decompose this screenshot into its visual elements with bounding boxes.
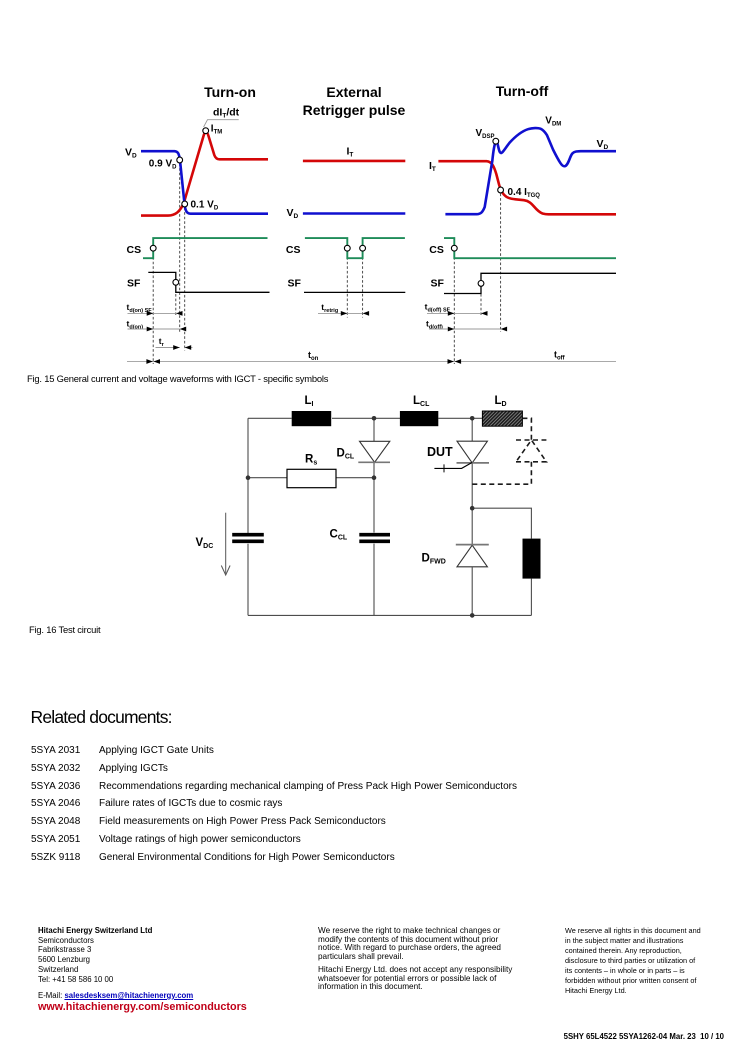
wire left vertical: [247, 418, 249, 615]
CS green trace panel2: [305, 238, 405, 258]
capacitor VDC: [232, 533, 264, 537]
marker CS panel3: [451, 245, 457, 251]
circuit figure: [0, 385, 750, 630]
svg-text:td(off) SF: td(off) SF: [425, 301, 451, 313]
svg-text:VD: VD: [287, 207, 299, 220]
red current trace panel3: [438, 161, 616, 214]
blue trace panel2: [303, 212, 405, 215]
dashed vertical at 0.9VD x=179.7: [179, 164, 181, 333]
node junction bottom rail: [470, 613, 475, 618]
inductor LCL: [400, 411, 438, 426]
wire DCL vertical: [373, 418, 375, 615]
node junction DCL top: [372, 416, 377, 421]
svg-text:SF: SF: [127, 278, 141, 290]
node junction Rs left: [246, 475, 251, 480]
svg-text:Turn-on: Turn-on: [204, 84, 256, 100]
waveform figure: [0, 0, 750, 370]
svg-text:DCL: DCL: [337, 448, 355, 461]
wire load branch: [472, 508, 531, 615]
svg-text:Rs: Rs: [305, 454, 317, 467]
CS green trace panel3: [444, 238, 616, 258]
blue voltage trace panel1: [141, 151, 268, 214]
node junction Rs right / DCL bottom: [372, 475, 377, 480]
dashed vertical at CS edge x=153: [152, 253, 154, 365]
wire top rail: [248, 417, 482, 419]
VDC arrow: [225, 513, 227, 574]
svg-text:IT: IT: [429, 160, 436, 173]
svg-text:Turn-off: Turn-off: [496, 83, 549, 99]
svg-text:CS: CS: [127, 244, 142, 256]
dim row1 panel3: [427, 312, 481, 314]
svg-text:CCL: CCL: [330, 529, 348, 542]
marker CS panel1: [150, 245, 156, 251]
svg-text:VD: VD: [597, 138, 609, 151]
dashed verticals panel3: [453, 253, 455, 365]
dim row2 panel3: [429, 328, 501, 330]
t_on gray baseline: [127, 361, 616, 363]
dIT/dt tangent line: [204, 120, 239, 127]
svg-text:dIT/dt: dIT/dt: [213, 107, 240, 120]
related documents heading: [31, 707, 172, 728]
svg-text:0.1 VD: 0.1 VD: [191, 200, 219, 212]
load resistor (black): [523, 539, 541, 579]
wire DFWD vertical: [471, 508, 473, 615]
wire bottom rail: [248, 614, 531, 616]
red trace panel2: [303, 160, 405, 163]
svg-text:SF: SF: [288, 278, 302, 290]
svg-text:ton: ton: [308, 350, 319, 362]
CS green trace panel1: [143, 238, 268, 258]
inductor LD (hatched): [482, 411, 522, 426]
marker ITM: [203, 128, 209, 134]
inductor LI: [292, 411, 332, 426]
marker 0.1VD: [182, 201, 188, 207]
marker SF panel1: [173, 279, 179, 285]
svg-text:0.9 VD: 0.9 VD: [149, 159, 177, 171]
svg-text:LD: LD: [495, 395, 507, 408]
diode DCL: [360, 441, 390, 462]
SF trace panel2: [304, 291, 405, 293]
fig16 caption: [29, 624, 100, 635]
svg-text:0.4 ITGQ: 0.4 ITGQ: [508, 187, 541, 199]
dashed clamp branch: [472, 418, 546, 484]
dashed verticals panel2: [346, 253, 348, 318]
svg-text:LI: LI: [305, 395, 314, 408]
svg-text:CS: CS: [429, 244, 444, 256]
dashed vertical at 0.1VD x=184.7: [184, 208, 186, 351]
svg-text:toff: toff: [554, 350, 566, 362]
node junction DUT top: [470, 416, 475, 421]
arrows at t_on/t_off boundaries: [146, 359, 461, 364]
fig15 caption: [27, 373, 328, 384]
wire Rs row: [248, 477, 374, 479]
dim row panel2: [318, 312, 363, 314]
resistor Rs: [287, 469, 336, 487]
svg-text:tr: tr: [159, 336, 165, 348]
svg-text:VDSP: VDSP: [476, 128, 495, 140]
node junction DUT cathode: [470, 506, 475, 511]
SF trace panel3: [444, 273, 616, 293]
thyristor DUT: [457, 441, 487, 463]
SF black trace panel1: [148, 272, 269, 292]
svg-text:VD: VD: [125, 147, 137, 160]
dim row2 panel1: [128, 328, 180, 330]
svg-text:ITM: ITM: [211, 123, 222, 135]
dashed vertical at SF edge x=176: [175, 294, 177, 317]
svg-text:VDC: VDC: [196, 537, 214, 550]
svg-text:DFWD: DFWD: [422, 553, 446, 566]
marker VDSP: [493, 138, 499, 144]
dim row1 panel1: [128, 312, 177, 314]
diode DFWD: [457, 545, 487, 567]
wire DUT vertical: [471, 418, 473, 508]
marker SF panel3: [478, 281, 484, 287]
svg-text:External: External: [326, 84, 381, 100]
markers CS panel2: [344, 245, 350, 251]
svg-text:Retrigger pulse: Retrigger pulse: [303, 102, 406, 118]
dim row3 tr: [156, 347, 180, 349]
blue voltage trace panel3: [445, 128, 616, 214]
svg-text:LCL: LCL: [413, 395, 430, 408]
svg-text:VDM: VDM: [545, 116, 561, 128]
svg-text:CS: CS: [286, 244, 301, 256]
svg-text:DUT: DUT: [427, 445, 453, 459]
svg-text:SF: SF: [431, 278, 445, 290]
svg-text:IT: IT: [347, 146, 354, 159]
red current trace panel1: [141, 132, 268, 215]
marker 0.4 ITGQ: [498, 187, 504, 193]
svg-text:tretrig: tretrig: [321, 302, 338, 314]
capacitor CCL: [359, 533, 390, 537]
marker 0.9VD: [177, 157, 183, 163]
